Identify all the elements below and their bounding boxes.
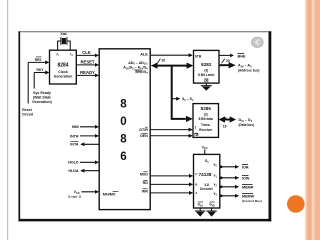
svg-text:READY: READY xyxy=(80,70,95,75)
svg-text:8: 8 xyxy=(120,133,127,145)
svg-text:0: 0 xyxy=(120,116,126,128)
svg-text:(Control Bus): (Control Bus) xyxy=(242,199,262,203)
svg-text:Clock: Clock xyxy=(58,70,68,74)
wire READY 8284 to 8086 xyxy=(76,70,98,75)
orange decorative circle xyxy=(287,195,305,213)
wire ALE 8086 to 8282 STB xyxy=(150,54,192,56)
ground under 8282 OE xyxy=(201,83,212,91)
svg-text:8282: 8282 xyxy=(201,62,212,67)
MEMW control net xyxy=(220,193,262,203)
NMI input wire xyxy=(72,125,98,129)
svg-text:HOLD: HOLD xyxy=(68,161,79,165)
svg-text:8: 8 xyxy=(120,98,127,110)
svg-text:STB: STB xyxy=(195,54,202,58)
diagram outer frame (border) xyxy=(19,31,272,221)
svg-text:Trans-: Trans- xyxy=(201,123,211,127)
wire RDY to wait state generator xyxy=(33,73,35,89)
svg-text:S0 – S2: S0 – S2 xyxy=(182,97,194,102)
address latch U-8282 box xyxy=(194,50,220,83)
svg-text:WR: WR xyxy=(142,189,148,193)
svg-text:BHE: BHE xyxy=(238,54,246,58)
wire RD to decoder B xyxy=(150,183,192,185)
address/data bus AD0-AD15 (bidirectional) xyxy=(151,59,194,69)
HLDA output wire xyxy=(68,169,99,173)
svg-text:INTR: INTR xyxy=(70,134,79,138)
svg-text:Receiver: Receiver xyxy=(199,128,213,132)
wait state generator label xyxy=(32,91,52,104)
wire DT/R to 8286 T xyxy=(150,129,192,131)
svg-text:MN/MX: MN/MX xyxy=(103,192,116,196)
INTA output wire xyxy=(70,141,99,146)
svg-text:(3): (3) xyxy=(204,68,208,72)
svg-text:DT/R: DT/R xyxy=(139,128,148,132)
slide right pink gradient bar xyxy=(304,0,320,240)
svg-text:(Address bus): (Address bus) xyxy=(238,69,259,73)
bus branch to 8286 (wire) xyxy=(172,66,193,122)
MEMR control net xyxy=(220,184,254,189)
svg-text:Xtal: Xtal xyxy=(60,32,66,36)
wire RES to reset circuit xyxy=(27,62,29,103)
wire M/IO to decoder C xyxy=(150,175,192,177)
data transceiver U-8286 box xyxy=(193,104,219,138)
svg-text:OE: OE xyxy=(204,79,209,83)
INTR input wire xyxy=(70,134,98,138)
svg-text:8284: 8284 xyxy=(57,63,68,69)
decoder U-74138 box xyxy=(194,154,220,208)
svg-text:IOR: IOR xyxy=(242,165,249,169)
back navigation circle button xyxy=(251,37,263,47)
svg-text:M/IO: M/IO xyxy=(140,172,148,176)
address bus A19-A0 output xyxy=(219,59,259,73)
svg-text:Generation: Generation xyxy=(54,75,72,79)
svg-text:Decoder: Decoder xyxy=(200,187,214,191)
ground under decoder G2B xyxy=(206,208,216,217)
svg-text:(Logic 1): (Logic 1) xyxy=(68,195,81,199)
svg-text:(Data bus): (Data bus) xyxy=(239,123,255,127)
Vcc supply to decoder G1 xyxy=(202,145,208,154)
svg-text:OE: OE xyxy=(194,133,199,137)
svg-text:20: 20 xyxy=(162,59,166,63)
svg-text:20: 20 xyxy=(226,59,230,63)
svg-text:DEN: DEN xyxy=(140,134,148,138)
svg-text:RDY: RDY xyxy=(37,68,45,72)
svg-text:6: 6 xyxy=(120,151,126,163)
svg-text:RES: RES xyxy=(35,58,43,62)
RDY input net xyxy=(34,68,48,73)
data bus D15-D0 (bidirectional) xyxy=(219,116,254,128)
svg-text:8 Bit data: 8 Bit data xyxy=(199,117,214,121)
svg-text:MEMR: MEMR xyxy=(242,185,254,189)
wire CLK 8284 to 8086 xyxy=(76,50,98,55)
svg-text:HLDA: HLDA xyxy=(68,169,79,173)
svg-text:RD: RD xyxy=(143,181,149,185)
svg-text:CLK: CLK xyxy=(82,50,91,55)
IOR control net xyxy=(220,164,249,169)
svg-text:Circuit: Circuit xyxy=(22,112,34,116)
svg-text:8 Bit Latch: 8 Bit Latch xyxy=(198,73,214,77)
BHE output net xyxy=(219,53,246,58)
svg-text:16: 16 xyxy=(223,124,227,128)
svg-text:IOW: IOW xyxy=(242,176,250,180)
svg-text:VCC: VCC xyxy=(202,145,208,150)
svg-text:MEMW: MEMW xyxy=(242,194,255,198)
status net S0-S2 xyxy=(172,97,194,102)
svg-text:RESET: RESET xyxy=(81,59,95,64)
reset circuit label xyxy=(22,108,34,117)
slide left pink accent line xyxy=(7,0,8,240)
wire WR to decoder A xyxy=(150,192,192,194)
svg-text:Sys Ready: Sys Ready xyxy=(33,91,51,95)
HOLD input wire xyxy=(68,161,98,165)
RES input net xyxy=(28,57,48,63)
CPU U-8086 box xyxy=(99,49,150,210)
wire RESET 8284 to 8086 xyxy=(76,59,98,65)
crystal X1 (Xtal) xyxy=(58,32,71,50)
wire DEN to 8286 OE xyxy=(150,135,192,137)
svg-text:INTA: INTA xyxy=(70,143,79,147)
ground under decoder G2A xyxy=(195,208,205,217)
svg-text:8286: 8286 xyxy=(201,106,212,111)
IOW control net xyxy=(220,175,250,180)
svg-text:(2): (2) xyxy=(204,113,208,117)
svg-text:ALE: ALE xyxy=(140,52,148,56)
svg-text:Generation): Generation) xyxy=(32,100,52,104)
Vcc logic-1 input to MN/MX pin xyxy=(68,190,98,198)
clock generator U-8284 box xyxy=(50,50,77,84)
svg-text:(Wait State: (Wait State xyxy=(33,95,51,99)
svg-text:Reset: Reset xyxy=(22,108,32,112)
svg-text:T: T xyxy=(195,126,197,130)
svg-text:NMI: NMI xyxy=(72,125,79,129)
svg-text:74138: 74138 xyxy=(199,172,212,177)
